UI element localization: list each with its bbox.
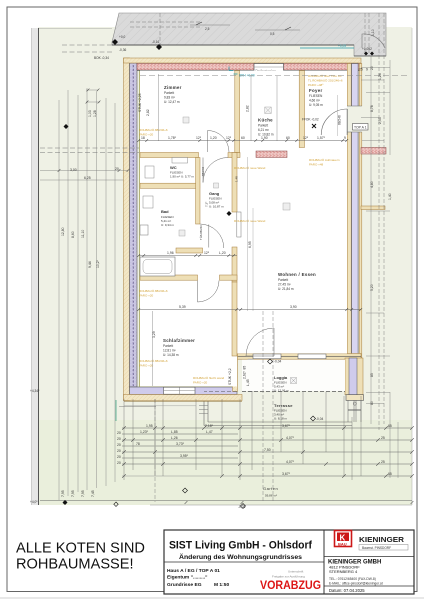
svg-text:2,82: 2,82: [146, 109, 150, 116]
door bad arc: [200, 224, 224, 248]
svg-text:5,39: 5,39: [179, 305, 186, 309]
svg-text:Parkett: Parkett: [163, 344, 173, 348]
bottom wall wohnen / loggia front: [237, 350, 361, 362]
right exterior wall lavender: [347, 64, 362, 396]
svg-text:5,20: 5,20: [370, 284, 374, 291]
svg-text:85: 85: [243, 366, 247, 370]
svg-text:60: 60: [286, 136, 290, 140]
arrow marks gray band: [196, 22, 291, 30]
svg-text:PARO +20: PARO +20: [193, 381, 208, 385]
svg-text:STUK +2,2: STUK +2,2: [228, 368, 232, 385]
svg-text:11,10: 11,10: [81, 230, 85, 238]
entry door arc foyer: [321, 109, 347, 135]
entry door gap in right wall: [347, 106, 363, 132]
svg-text:85: 85: [370, 373, 374, 377]
window in top wall: [254, 64, 284, 80]
svg-text:12,80: 12,80: [61, 227, 65, 236]
svg-text:+4,0⁵: +4,0⁵: [30, 500, 38, 504]
svg-text:1,48: 1,48: [235, 176, 239, 182]
svg-text:PARO +20: PARO +20: [139, 294, 154, 298]
door loggia arc: [246, 328, 274, 356]
svg-text:6,95: 6,95: [248, 241, 252, 248]
kieninger logo K-BAU: [335, 531, 352, 547]
svg-text:1,78⁵: 1,78⁵: [168, 136, 177, 140]
svg-text:ROHBAUÖ.88/246+6: ROHBAUÖ.88/246+6: [139, 359, 168, 363]
svg-text:1,95: 1,95: [146, 424, 153, 428]
svg-text:Schlafzimmer: Schlafzimmer: [163, 338, 195, 343]
extension line in zimmer: [158, 74, 160, 141]
svg-text:ROHBAUMASSE!: ROHBAUMASSE!: [16, 557, 134, 573]
wall row under zimmer: [140, 151, 287, 158]
extension lines wohnen: [248, 157, 254, 311]
svg-text:3,67⁵: 3,67⁵: [282, 424, 291, 428]
door zimmer arc: [208, 131, 230, 153]
svg-text:Datum: 07.04.2025: Datum: 07.04.2025: [329, 588, 365, 593]
svg-text:Terrasse: Terrasse: [274, 403, 293, 408]
wall kueche/foyer: [299, 71, 304, 148]
svg-text:-0,04: -0,04: [274, 360, 281, 364]
svg-text:TÜA 88/246: TÜA 88/246: [199, 225, 203, 240]
svg-text:L,20: L,20: [219, 251, 226, 255]
fixtures bad basin: [140, 196, 153, 235]
teal lines: [300, 47, 354, 49]
rotated dimension texts: [61, 66, 392, 497]
svg-text:20: 20: [117, 449, 121, 453]
svg-text:1,23⁵: 1,23⁵: [140, 430, 149, 434]
wall gang right vertical: [232, 153, 237, 283]
svg-text:2,62⁵: 2,62⁵: [243, 370, 247, 379]
room kueche: [258, 118, 274, 137]
svg-text:Zimmer: Zimmer: [164, 85, 182, 90]
svg-text:1,40: 1,40: [388, 193, 392, 200]
svg-text:Foyer: Foyer: [309, 88, 322, 93]
svg-text:1,96: 1,96: [167, 251, 174, 255]
svg-text:U: 10,87 m: U: 10,87 m: [209, 205, 224, 209]
dimension texts small: [70, 68, 392, 477]
svg-text:U: 8,18 m: U: 8,18 m: [274, 417, 288, 421]
interior white: [140, 71, 347, 354]
svg-text:ROHBAUÖ Aufmauern: ROHBAUÖ Aufmauern: [309, 158, 340, 162]
svg-text:3,67⁵: 3,67⁵: [282, 472, 291, 476]
svg-text:20: 20: [117, 455, 121, 459]
svg-text:7,95: 7,95: [81, 490, 85, 497]
interior dim chain y309: [139, 309, 361, 311]
room terrasse: [274, 403, 293, 421]
svg-text:L,85: L,85: [171, 430, 178, 434]
svg-text:Baumst. PINSDORF: Baumst. PINSDORF: [362, 546, 391, 550]
svg-text:7,45: 7,45: [91, 490, 95, 497]
svg-text:Unterschrift: Unterschrift: [288, 570, 304, 574]
svg-text:12,81 m²: 12,81 m²: [163, 349, 176, 353]
svg-text:SIST Living GmbH - Ohlsdorf: SIST Living GmbH - Ohlsdorf: [169, 540, 312, 552]
wall bad/gang vertical: [196, 158, 200, 225]
svg-text:Änderung des Wohnungsgrundriss: Änderung des Wohnungsgrundrisses: [179, 553, 302, 561]
svg-text:2,53: 2,53: [378, 117, 382, 124]
svg-text:6,21 m²: 6,21 m²: [258, 128, 269, 132]
door schlafzimmer arc: [198, 281, 220, 303]
svg-text:3,90: 3,90: [290, 305, 297, 309]
room wc: [170, 165, 195, 179]
svg-text:1,90: 1,90: [261, 136, 268, 140]
pink wall stub right of foyer: [361, 148, 386, 155]
svg-text:PARO +48⁵: PARO +48⁵: [308, 83, 324, 87]
svg-text:20: 20: [117, 461, 121, 465]
wall zimmer/kueche: [235, 71, 240, 153]
orange annotations: [139, 74, 343, 385]
loggia right wall / right wall lower box: [345, 358, 364, 422]
svg-text:20: 20: [117, 443, 121, 447]
svg-text:PARO +20: PARO +20: [139, 364, 154, 368]
svg-text:VORABZUG: VORABZUG: [260, 578, 321, 592]
svg-text:4,80: 4,80: [370, 181, 374, 188]
svg-text:3,29: 3,29: [152, 331, 156, 338]
entry door threshold: [347, 106, 362, 132]
room garten: [263, 486, 278, 498]
wall wc/bad: [140, 183, 200, 188]
svg-text:U: 12,06 m: U: 12,06 m: [274, 389, 289, 393]
svg-text:+4,34⁵: +4,34⁵: [30, 389, 40, 393]
dashed verticals bottom middle: [155, 311, 273, 502]
loggia floor: [242, 360, 345, 392]
svg-text:U: 9,05 m: U: 9,05 m: [309, 103, 323, 107]
svg-text:1,57⁵: 1,57⁵: [317, 136, 326, 140]
right side verticals: [371, 56, 398, 478]
left horizontals: [40, 170, 128, 172]
dashed line top inside zimmer: [140, 75, 410, 77]
room wohnen essen: [278, 272, 316, 291]
svg-text:3,95⁵: 3,95⁵: [180, 454, 189, 458]
bottom extension verticals: [124, 392, 361, 480]
svg-text:88/246: 88/246: [338, 115, 342, 125]
svg-text:E-MAIL: office-pinsdorf@kien: E-MAIL: office-pinsdorf@kieninger.at: [329, 582, 383, 586]
svg-text:7,50: 7,50: [264, 448, 271, 452]
terrace steps: [199, 406, 208, 414]
room zimmer: [164, 85, 182, 104]
svg-text:STUK +2,25: STUK +2,25: [138, 93, 142, 112]
svg-text:4,66 m²: 4,66 m²: [309, 99, 320, 103]
svg-text:-0,28: -0,28: [238, 505, 245, 509]
dashed reference lines left: [40, 45, 139, 153]
bottom wall schlafzimmer: lavender + tan: [124, 387, 243, 401]
svg-text:KIENINGER: KIENINGER: [359, 535, 405, 544]
svg-text:U: 14,38 m: U: 14,38 m: [163, 353, 179, 357]
svg-text:4,07⁵: 4,07⁵: [286, 460, 295, 464]
svg-text:20: 20: [115, 167, 119, 171]
svg-text:ROHBAUÖ neue Wand: ROHBAUÖ neue Wand: [234, 166, 266, 170]
svg-text:2,18⁵: 2,18⁵: [205, 424, 214, 428]
cyan annotations: [229, 67, 238, 75]
svg-text:1,10: 1,10: [371, 29, 375, 36]
svg-text:25: 25: [381, 436, 385, 440]
svg-text:TL ROHBAUÖ 201/246+6: TL ROHBAUÖ 201/246+6: [308, 79, 343, 83]
svg-text:80: 80: [370, 401, 374, 405]
svg-text:WC: WC: [170, 165, 177, 170]
svg-text:20: 20: [117, 431, 121, 435]
left area verticals: [58, 100, 60, 500]
svg-text:U: 12,47 m: U: 12,47 m: [164, 100, 180, 104]
svg-text:+0,0: +0,0: [119, 35, 126, 39]
svg-text:Parkett: Parkett: [278, 278, 288, 282]
svg-text:9,44: 9,44: [88, 261, 92, 268]
svg-text:2,82: 2,82: [246, 105, 250, 112]
alle koten note: [16, 541, 145, 573]
foyer door dim: [336, 95, 338, 136]
svg-text:L,47: L,47: [206, 430, 213, 434]
wall bad/schlafzimmer: [140, 275, 237, 280]
svg-text:TOP A 1: TOP A 1: [354, 126, 367, 130]
svg-text:-0,16: -0,16: [152, 40, 159, 44]
svg-text:7,95: 7,95: [71, 490, 75, 497]
svg-text:Loggia: Loggia: [274, 375, 288, 380]
svg-text:Bad: Bad: [161, 209, 169, 214]
line below bottom wall: [124, 400, 242, 402]
TOP A 1 label box: [353, 124, 369, 131]
svg-text:59,86 m²: 59,86 m²: [265, 494, 277, 498]
svg-text:1,03: 1,03: [88, 110, 92, 117]
svg-text:18: 18: [141, 136, 145, 140]
svg-text:ROHBAUÖ neue Wand: ROHBAUÖ neue Wand: [234, 219, 266, 223]
svg-text:1,90 m² U: 5,77 m: 1,90 m² U: 5,77 m: [170, 175, 195, 179]
svg-text:BOK -0,34: BOK -0,34: [94, 56, 109, 60]
svg-text:3,00: 3,00: [70, 168, 77, 172]
kieninger address: [328, 560, 381, 575]
loggia dashed front: [242, 391, 345, 393]
svg-text:Gang: Gang: [209, 191, 220, 196]
svg-text:M 1:50: M 1:50: [214, 582, 230, 588]
svg-text:7,95: 7,95: [61, 490, 65, 497]
door leaf gang-wohnen: [237, 212, 241, 237]
svg-text:TEL.: 07612/65400 (F: TEL.: 07612/65400 (FAX-DW-8): [329, 577, 376, 581]
wall bad stub: [176, 248, 203, 253]
svg-text:L,26: L,26: [171, 436, 178, 440]
dimension tick marks bottom rows: [58, 89, 414, 504]
room loggia: [274, 375, 289, 393]
survey markers: [63, 39, 375, 509]
svg-text:STERNBERG 4: STERNBERG 4: [329, 569, 358, 574]
svg-text:78: 78: [136, 442, 140, 446]
svg-text:20: 20: [117, 437, 121, 441]
svg-text:Parkett: Parkett: [258, 124, 268, 128]
svg-text:FLIESEN: FLIESEN: [309, 94, 323, 98]
bottom dimension rows: [40, 428, 412, 505]
svg-text:Wohnen / Essen: Wohnen / Essen: [278, 272, 316, 277]
svg-text:65: 65: [388, 424, 392, 428]
svg-text:20: 20: [370, 66, 374, 70]
svg-text:25: 25: [381, 460, 385, 464]
svg-text:Haus A / EG / TOP A 01: Haus A / EG / TOP A 01: [167, 568, 220, 574]
unterschrift small: [272, 570, 305, 579]
svg-text:ROHBAUÖ über Türe zu-: ROHBAUÖ über Türe zu-: [308, 74, 342, 78]
svg-text:12⁵: 12⁵: [204, 251, 210, 255]
svg-text:8,78: 8,78: [370, 105, 374, 112]
drawing area tint: [38, 27, 412, 505]
loggia left wall: [233, 354, 254, 392]
stairwell door arc top right: [362, 34, 385, 48]
svg-text:ALLE KOTEN SIND: ALLE KOTEN SIND: [16, 541, 145, 557]
svg-text:BAU: BAU: [338, 542, 347, 547]
window in bottom schlafzimmer wall: [164, 382, 196, 394]
marks inside gray band: [130, 13, 300, 45]
svg-text:1,28: 1,28: [93, 110, 97, 117]
svg-text:10,2⁵: 10,2⁵: [96, 259, 100, 268]
garden tint: [38, 420, 412, 505]
wall schlafzimmer/wohnen vertical: [232, 282, 237, 356]
svg-text:Garten: Garten: [263, 486, 278, 491]
svg-text:ROHBAUÖ flucht wand: ROHBAUÖ flucht wand: [193, 376, 225, 380]
svg-text:-0,36: -0,36: [119, 48, 126, 52]
svg-text:Eigentum ".........": Eigentum ".........": [167, 575, 208, 581]
room foyer: [309, 88, 323, 107]
svg-text:Parkett: Parkett: [164, 91, 174, 95]
svg-text:7,3⁵: 7,3⁵: [205, 201, 209, 207]
interior dim chain y140: [139, 140, 347, 142]
right margin chain ticks: [361, 68, 390, 404]
svg-text:3,73⁵: 3,73⁵: [176, 442, 185, 446]
svg-text:88/246: 88/246: [201, 166, 205, 176]
svg-text:65: 65: [388, 472, 392, 476]
svg-text:FFOK -0,02: FFOK -0,02: [302, 118, 319, 122]
svg-text:PARO +48: PARO +48: [309, 163, 324, 167]
svg-text:25: 25: [359, 68, 363, 72]
top exterior wall: tan + pink insulation: [124, 58, 362, 70]
svg-text:1,24: 1,24: [378, 73, 382, 80]
wall stub right at y207: [361, 206, 385, 210]
floor drain symbols: [183, 117, 189, 123]
fixtures bad bathtub: [140, 257, 175, 276]
svg-text:U: 21,84 m: U: 21,84 m: [278, 287, 294, 291]
interior dim chain y255 bad: [139, 255, 237, 257]
svg-text:27,45 m²: 27,45 m²: [278, 283, 291, 287]
svg-text:9: 9: [366, 68, 368, 72]
terrasse edges: [204, 401, 352, 426]
svg-text:-0,04: -0,04: [316, 417, 323, 421]
room bad: [161, 209, 175, 227]
kieninger wordmark: [359, 535, 408, 550]
svg-text:60: 60: [241, 136, 245, 140]
svg-text:0,5: 0,5: [270, 32, 275, 36]
neighbour strip left: [31, 28, 39, 505]
svg-text:+0,05: +0,05: [338, 44, 346, 48]
svg-text:9,83 m²: 9,83 m²: [164, 96, 175, 100]
room gang: [209, 191, 224, 209]
neighbour building gray band top: [112, 13, 386, 56]
svg-text:6,25: 6,25: [84, 176, 91, 180]
svg-text:+0,092: +0,092: [362, 47, 372, 51]
room schlafzimmer: [163, 338, 195, 357]
svg-text:1,20: 1,20: [210, 136, 217, 140]
title project name: [167, 540, 312, 589]
svg-text:8,60: 8,60: [71, 231, 75, 238]
svg-text:Grundrisse EG: Grundrisse EG: [167, 582, 202, 588]
door wc arc: [203, 158, 228, 183]
svg-text:12⁵: 12⁵: [196, 136, 202, 140]
svg-text:L,45: L,45: [246, 379, 250, 386]
svg-text:ROHBAUÖ.88/246+6: ROHBAUÖ.88/246+6: [139, 128, 168, 132]
svg-text:2,5: 2,5: [205, 27, 210, 31]
svg-text:9: 9: [344, 136, 346, 140]
svg-text:12⁵: 12⁵: [303, 136, 309, 140]
svg-text:U: 9,34 m: U: 9,34 m: [161, 223, 175, 227]
fixtures wc basin: [145, 158, 188, 179]
svg-text:4,07⁵: 4,07⁵: [286, 436, 295, 440]
svg-text:12⁵: 12⁵: [226, 136, 232, 140]
svg-text:Küche: Küche: [258, 118, 273, 123]
left exterior wall: tan insulation + lavender concrete: [124, 58, 140, 401]
svg-text:ROHBAUÖ.88/246+6: ROHBAUÖ.88/246+6: [139, 289, 168, 293]
